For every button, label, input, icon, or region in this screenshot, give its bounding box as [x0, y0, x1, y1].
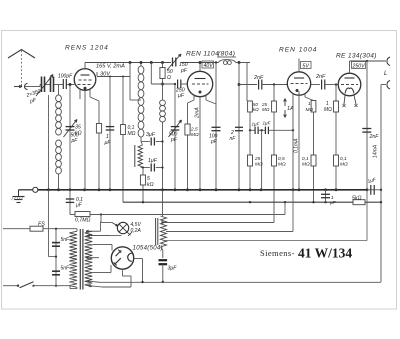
svg-text:14mA: 14mA: [373, 144, 379, 158]
oscillator coil on cathode line: [162, 84, 164, 100]
capacitor 1uF between buses: [325, 190, 327, 203]
svg-text:MΩ: MΩ: [302, 162, 310, 168]
transformer core: [79, 229, 81, 290]
svg-text:REN 1104: REN 1104: [186, 51, 219, 58]
svg-text:MΩ: MΩ: [255, 162, 263, 168]
wire tuning cap ground return: [48, 95, 50, 190]
rectifier feed wires: [92, 244, 96, 246]
capacitor 5nF upper: [55, 229, 57, 286]
svg-text:2nF: 2nF: [369, 134, 380, 140]
transformer secondary winding: [85, 231, 93, 286]
svg-text:Ω: Ω: [167, 75, 171, 81]
capacitor 0.1uF below bus: [69, 190, 71, 215]
mains switch: [3, 285, 18, 287]
output terminal lower: [387, 81, 390, 90]
svg-text:2,5: 2,5: [190, 127, 198, 133]
fuse FS: [30, 226, 43, 231]
resistor 0.1M: [122, 77, 124, 203]
resistor 0.5M: [272, 155, 277, 166]
svg-text:L: L: [384, 71, 387, 77]
svg-text:FS: FS: [38, 221, 45, 227]
wire antenna lead: [21, 84, 23, 87]
svg-text:REN 1004: REN 1004: [279, 47, 317, 54]
IF transformer primary coil: [140, 63, 142, 67]
bottom return wire: [100, 281, 381, 283]
resistor 25M avc: [273, 83, 275, 85]
svg-text:100pF: 100pF: [58, 74, 73, 80]
rail 165V: [85, 62, 171, 64]
svg-text:kΩ: kΩ: [147, 182, 154, 188]
capacitor 3uF: [150, 138, 152, 146]
resistor 1M cathode t3: [311, 101, 316, 113]
second bus heater/ground: [123, 201, 353, 203]
svg-text:pF: pF: [170, 137, 178, 143]
rectifier tube 1054(504): [111, 247, 133, 269]
wire tube2 plate to rail 40V: [199, 63, 201, 72]
capacitor 5nF lower: [52, 270, 60, 272]
svg-text:0,1mA: 0,1mA: [294, 138, 300, 153]
coupling hump coils on rail: [218, 60, 236, 63]
svg-text:25: 25: [254, 156, 261, 162]
svg-text:MΩ: MΩ: [128, 131, 136, 137]
svg-text:5kΩ: 5kΩ: [352, 196, 361, 202]
wire tube1 cathode legs: [79, 90, 81, 99]
heater current arrows 1A: [284, 99, 286, 107]
ground terminal socket: [33, 187, 38, 192]
secondary tap arrows: [86, 230, 99, 232]
secondary mid tap arrow: [86, 257, 99, 259]
svg-text:MΩ: MΩ: [278, 162, 286, 168]
capacitor 1uF first: [250, 129, 255, 131]
svg-text:μF: μF: [329, 200, 337, 206]
heater line 4: [166, 240, 368, 242]
capacitor 2nF grid tube4: [311, 84, 320, 86]
capacitor 100pF: [62, 79, 64, 89]
heater winding arrows bottom: [87, 281, 100, 282]
tube4 filament legs K K: [344, 96, 345, 105]
wire coil bottom junction: [140, 137, 142, 142]
svg-text:Siemens-: Siemens-: [260, 248, 295, 258]
svg-text:1: 1: [308, 101, 311, 107]
svg-text:0,1: 0,1: [340, 156, 347, 162]
variable capacitor 2x350pF section2: [50, 77, 52, 93]
ground bus main: [35, 189, 367, 191]
resistor 0.7M line: [70, 214, 75, 216]
rail 30V screen: [97, 76, 130, 78]
choke with core: [134, 145, 136, 167]
heater line 2: [100, 213, 102, 215]
svg-text:40V: 40V: [204, 63, 214, 69]
variable capacitor 500pF osc section: [69, 85, 71, 190]
svg-text:MΩ: MΩ: [191, 132, 199, 138]
resistor 25M lower: [248, 155, 253, 166]
wire cap midpoint to bus: [260, 129, 262, 131]
tube V4 RE 134(304): [338, 73, 361, 96]
capacitor 1uF coupling: [140, 166, 142, 169]
bus junction dots: [47, 188, 50, 191]
svg-text:0,2A: 0,2A: [131, 228, 142, 234]
svg-text:41 W/134: 41 W/134: [298, 246, 352, 261]
svg-text:1μF: 1μF: [252, 122, 261, 127]
bottom heater stub: [102, 286, 131, 288]
trimmer 150pF on rail: [172, 58, 174, 67]
svg-text:2mA: 2mA: [195, 107, 201, 119]
resistor 0.1M tube4: [334, 155, 339, 166]
svg-text:5nF: 5nF: [61, 237, 71, 243]
svg-text:(804): (804): [218, 51, 235, 58]
svg-text:1μF: 1μF: [263, 121, 272, 126]
antenna: [8, 50, 35, 59]
svg-text:μF: μF: [75, 203, 83, 209]
capacitor 2nF grid tube3: [239, 84, 257, 86]
mains input upper: [3, 228, 30, 230]
svg-text:MΩ: MΩ: [340, 162, 348, 168]
wire to earth: [19, 189, 33, 191]
wire tube3 legs: [292, 94, 294, 190]
svg-text:kΩ: kΩ: [75, 131, 82, 137]
capacitor 3uF electrolytic: [159, 259, 168, 261]
svg-text:pF: pF: [210, 139, 218, 145]
rectifier output wires: [134, 258, 142, 260]
antenna coil upper winding: [58, 85, 60, 96]
resistor 50ohm: [161, 61, 164, 64]
tube V2 REN 1104(804): [187, 71, 212, 96]
wire ground tap to mains mid: [48, 190, 50, 257]
svg-text:μF: μF: [104, 140, 112, 146]
wire coil return to bus: [58, 174, 60, 190]
heater line from choke node: [161, 221, 163, 223]
earth ground symbol: [13, 196, 25, 198]
antenna input socket: [14, 86, 22, 88]
resistor 5k: [142, 166, 144, 168]
heater line 3: [166, 231, 293, 233]
capacitor 2nF tone: [366, 61, 368, 190]
svg-text:250V: 250V: [352, 63, 366, 69]
output terminal upper: [387, 57, 390, 66]
40V box label: [202, 61, 214, 68]
svg-text:0,7MΩ: 0,7MΩ: [75, 218, 91, 224]
transformer primary winding: [76, 229, 78, 232]
variable capacitor 500pF tube2: [174, 84, 176, 190]
svg-text:MΩ: MΩ: [262, 107, 270, 112]
svg-text:μF: μF: [177, 93, 185, 99]
resistor 2.5M tube2: [187, 103, 189, 190]
choke bottom to cap 3uF: [161, 247, 163, 250]
variable capacitor 2x350pF section1: [41, 77, 43, 93]
rail to output terminal: [350, 60, 387, 62]
capacitor 1uF bus end: [367, 189, 381, 191]
svg-text:2nF: 2nF: [253, 75, 264, 81]
pilot lamp 4.5V 0.2A: [117, 222, 128, 233]
svg-text:1054(504): 1054(504): [133, 245, 163, 252]
svg-text:RENS 1204: RENS 1204: [65, 45, 109, 52]
capacitor 1uF cathode: [109, 77, 111, 190]
svg-text:165 V, 2mA: 165 V, 2mA: [96, 64, 125, 70]
wire grid line tube1: [25, 86, 40, 88]
capacitor 1uF second: [258, 129, 265, 131]
wire tube4 plate rail 250V: [349, 61, 351, 73]
tube V1 RENS 1204: [74, 69, 96, 91]
svg-text:nF: nF: [230, 136, 237, 142]
antenna coil lower winding: [56, 140, 62, 147]
wire tube2 legs: [193, 96, 195, 101]
wire rail drop to grid line: [246, 63, 248, 102]
wire terminal2 down: [381, 84, 386, 86]
resistor 0.1M cathode t3: [313, 112, 315, 202]
wire from rail to grid line tube2: [150, 61, 153, 64]
wire tube3 plate measurement 5V: [298, 59, 300, 72]
tube V3 REN 1004: [287, 72, 310, 95]
capacitor 2nF anode bend: [235, 126, 243, 128]
svg-text:MΩ: MΩ: [306, 107, 314, 113]
svg-text:5V: 5V: [303, 63, 310, 69]
svg-text:MΩ: MΩ: [324, 107, 332, 113]
svg-text:0,5: 0,5: [278, 156, 285, 162]
svg-text:pF: pF: [71, 138, 79, 144]
resistor 35k: [98, 101, 100, 190]
svg-text:2nF: 2nF: [315, 74, 326, 80]
svg-text:0,1: 0,1: [302, 156, 309, 162]
wire tube1 plate to rail: [84, 63, 86, 70]
svg-text:3μF: 3μF: [146, 132, 156, 138]
svg-text:3μF: 3μF: [168, 266, 178, 272]
wire divider node: [249, 112, 251, 190]
svg-text:RE 134(304): RE 134(304): [336, 53, 377, 60]
output choke with core: [162, 190, 164, 216]
svg-text:pF: pF: [180, 68, 188, 74]
wire divider from rail to coil2: [129, 61, 132, 64]
grid resistor 1M tube4: [335, 85, 337, 102]
svg-text:kΩ: kΩ: [253, 107, 259, 112]
svg-text:1μF: 1μF: [148, 158, 158, 164]
resistor 50k screen: [248, 101, 253, 112]
capacitor 100pF tube2: [215, 103, 217, 190]
svg-text:5nF: 5nF: [61, 266, 71, 272]
resistor 5k on bus2: [353, 200, 365, 205]
capacitor 250pF grid tube2: [151, 83, 176, 85]
